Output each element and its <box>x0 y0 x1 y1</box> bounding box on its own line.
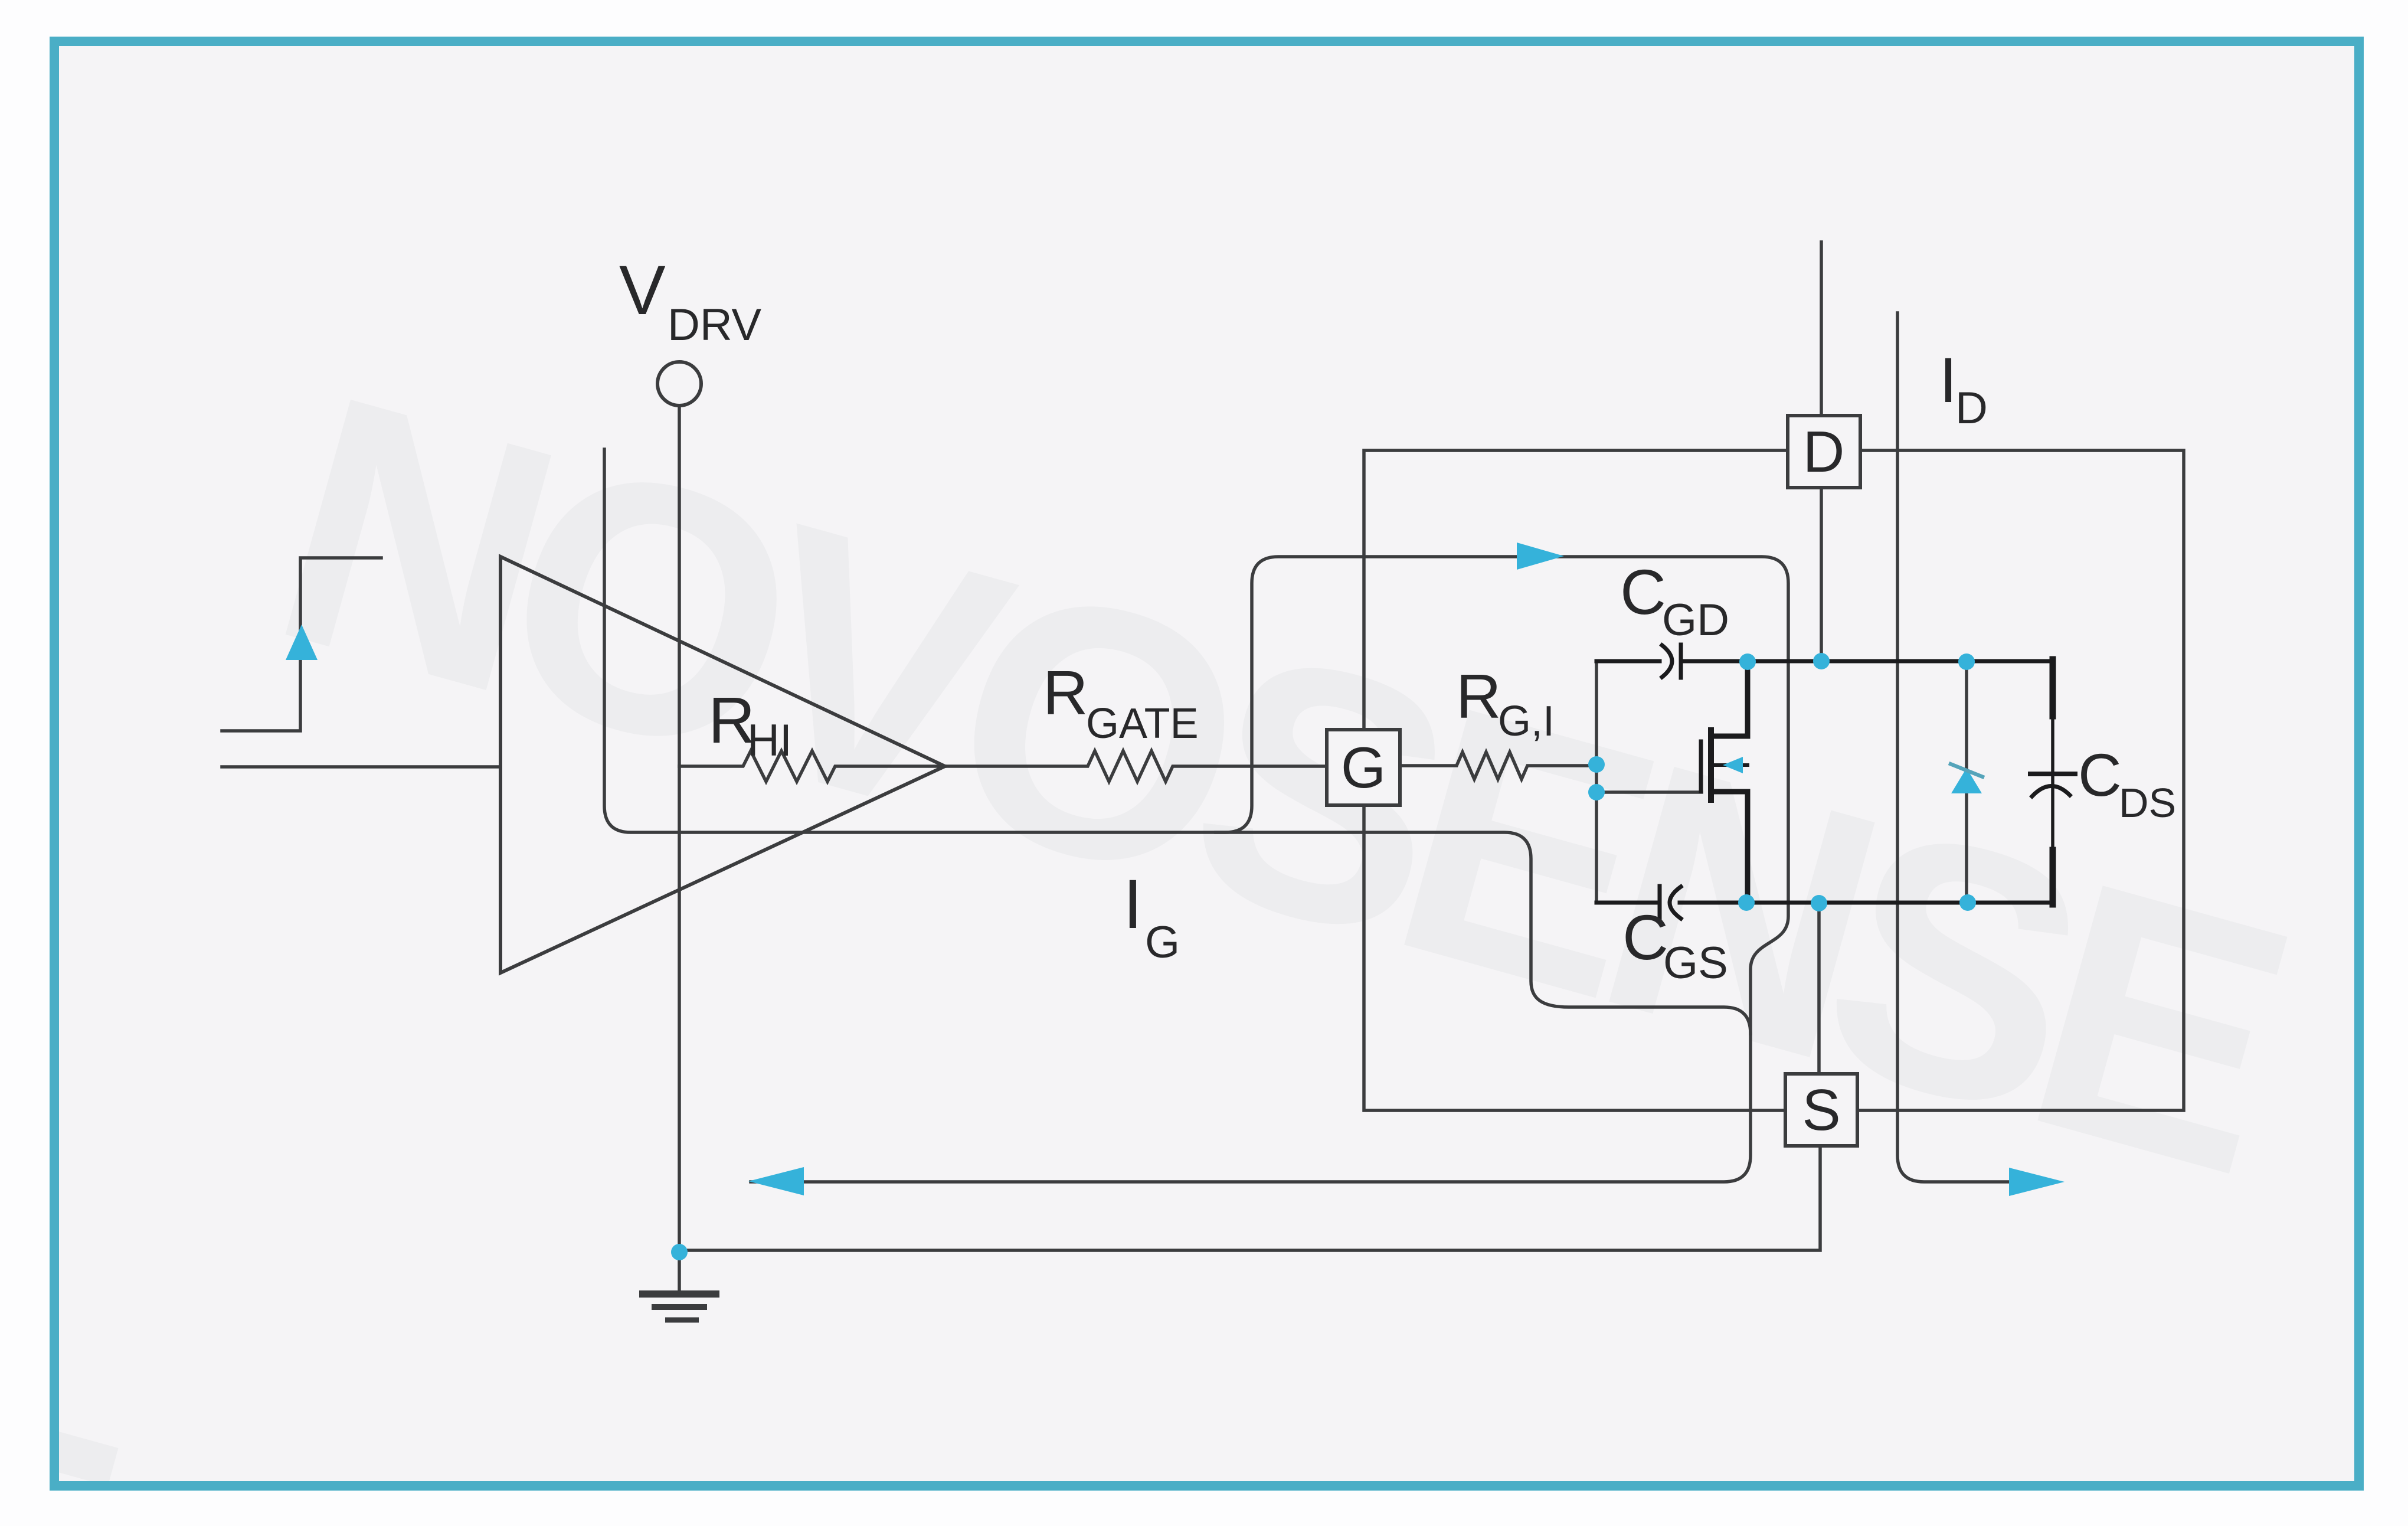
input step waveform <box>222 558 381 731</box>
gate stub between nodes <box>1595 764 1598 792</box>
svg-text:DRV: DRV <box>668 300 761 350</box>
svg-text:HI: HI <box>747 715 792 766</box>
ID sense line with corner <box>1897 313 2009 1182</box>
thick black nets <box>1596 645 2075 919</box>
source lead S box top <box>1817 903 1821 1074</box>
svg-text:C: C <box>1622 901 1668 973</box>
svg-text:D: D <box>1955 383 1988 433</box>
VDRV vertical wire to ground <box>678 406 681 1252</box>
gate wire to MOSFET <box>1596 790 1702 794</box>
CGS left branch <box>1595 792 1598 903</box>
node: CGS/source <box>1738 894 1755 911</box>
drain lead above D <box>1820 242 1823 416</box>
zener vertical wire <box>1965 662 1968 903</box>
svg-text:R: R <box>1043 658 1088 728</box>
arrow IG right (top) <box>1517 543 1564 570</box>
resistor R_G,I <box>1400 752 1596 779</box>
resistor R_GATE <box>945 751 1327 782</box>
arrow ID right (bottom right) <box>2009 1168 2065 1196</box>
svg-text:R: R <box>1456 662 1501 731</box>
node: gate lower <box>1588 784 1605 800</box>
node: S pin <box>1811 895 1827 911</box>
node: D pin <box>1813 653 1830 669</box>
svg-text:I: I <box>1123 865 1143 943</box>
arrow MOSFET body <box>1723 757 1743 773</box>
node: CGD/drain <box>1739 653 1756 670</box>
svg-text:C: C <box>2078 741 2122 809</box>
cyan junction dots <box>671 653 1976 1260</box>
VDRV terminal circle <box>657 362 701 406</box>
current loop line (IG path) <box>604 449 1788 1182</box>
input wire <box>222 765 500 769</box>
node: zener top <box>1958 653 1975 670</box>
current loop branch wire <box>1216 832 1751 1034</box>
MOSFET body lead <box>1711 763 1748 767</box>
capacitor C_GD plates <box>1662 645 1672 677</box>
svg-text:D: D <box>1803 419 1845 484</box>
svg-text:I: I <box>1939 344 1957 416</box>
ground symbol <box>639 1252 719 1320</box>
pin boxes <box>1327 416 1860 1146</box>
svg-text:C: C <box>1620 556 1666 628</box>
capacitor C_DS branch <box>2050 659 2056 716</box>
svg-text:GD: GD <box>1662 595 1729 645</box>
arrow input step up <box>286 625 318 660</box>
CGD left branch <box>1595 661 1598 764</box>
driver triangle U1 <box>500 557 945 973</box>
MOSFET source lead <box>1711 792 1748 903</box>
svg-text:GS: GS <box>1663 938 1728 988</box>
MOSFET drain lead <box>1711 662 1748 736</box>
source return below S to ground <box>679 1146 1820 1250</box>
capacitor C_GS plates <box>1658 886 1662 919</box>
node: gate upper <box>1588 756 1605 773</box>
node: zener bottom <box>1959 894 1976 911</box>
arrow IG left (bottom) <box>748 1167 804 1195</box>
resistor R_HI <box>679 751 945 782</box>
big package loop rectangle through G D S <box>1364 450 2184 1110</box>
MOSFET channel segments <box>1708 730 1714 800</box>
svg-text:G: G <box>1341 735 1386 800</box>
node: ground junction <box>671 1244 688 1260</box>
svg-text:S: S <box>1802 1077 1840 1142</box>
cyan arrows <box>286 543 2065 1196</box>
watermark NOVOSENSE <box>0 320 2319 1526</box>
node G box <box>1327 730 1400 805</box>
zener body diode <box>1949 763 1984 793</box>
svg-text:V: V <box>619 251 666 329</box>
svg-text:DS: DS <box>2119 780 2176 826</box>
svg-text:G,I: G,I <box>1498 698 1555 745</box>
CGS bottom wire <box>1596 901 1660 905</box>
node D box <box>1788 416 1860 488</box>
capacitor C_DS lower lead <box>2050 850 2056 904</box>
node S box <box>1785 1074 1857 1146</box>
MOSFET Q1 gate bar <box>1699 741 1703 791</box>
drain lead below D <box>1820 488 1823 661</box>
svg-text:G: G <box>1145 917 1180 968</box>
svg-text:GATE: GATE <box>1086 700 1199 747</box>
CGD top wire <box>1596 659 1660 664</box>
